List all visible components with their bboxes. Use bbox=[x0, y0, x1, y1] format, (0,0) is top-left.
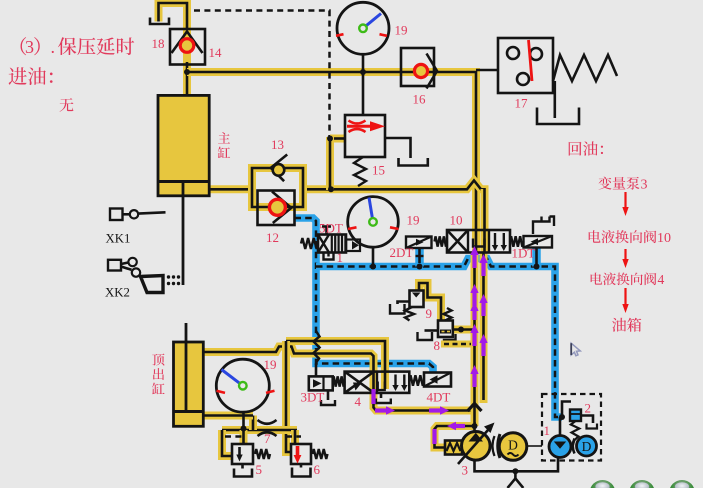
label 进油： bbox=[9, 67, 27, 85]
node junction pilot/feed bbox=[327, 136, 333, 142]
flow arrows purple riser left bbox=[472, 252, 476, 268]
directional valve 4 (4DT) bbox=[345, 372, 410, 393]
pressure gauge 19 middle bbox=[348, 197, 399, 248]
wire blue return main y266 to pump unit 1 bbox=[316, 259, 562, 418]
relief valve 6 bbox=[291, 444, 311, 464]
node junction tank line bbox=[512, 468, 518, 474]
wire gauge19-top stem bbox=[362, 50, 365, 116]
wire left drop x286 to valve6 bbox=[286, 341, 291, 452]
svg-text:19: 19 bbox=[395, 23, 408, 38]
svg-text:5DT: 5DT bbox=[319, 221, 343, 236]
dotted link XK2 to rod bbox=[167, 275, 170, 278]
svg-text:4: 4 bbox=[658, 272, 665, 287]
red arrow 1 bbox=[624, 192, 626, 209]
svg-text:8: 8 bbox=[434, 338, 441, 353]
wire valve5 top feed bbox=[240, 430, 248, 445]
label 无 bbox=[60, 98, 74, 112]
relief valve 5 bbox=[232, 444, 253, 464]
wire tank18 to valve14 bbox=[159, 3, 188, 31]
node junction bottom bbox=[241, 426, 247, 432]
electric motor D~ bbox=[499, 433, 527, 461]
wire upper pipe y341 to valve4 right port bbox=[286, 341, 385, 389]
svg-text:4DT: 4DT bbox=[427, 390, 451, 405]
reducing valve 8 bbox=[438, 321, 453, 338]
check valve 14 bbox=[170, 29, 205, 65]
pilot valve 15 bbox=[345, 115, 385, 157]
limit switch XK1 bbox=[110, 209, 123, 221]
wire vertical pair valve10 to pump3 junction bbox=[471, 253, 479, 427]
svg-text:1DT: 1DT bbox=[512, 246, 536, 261]
arrowhead up at pump3 riser bbox=[468, 404, 482, 412]
svg-text:7: 7 bbox=[264, 431, 271, 446]
svg-text:3DT: 3DT bbox=[301, 390, 325, 405]
spring right of valve10 bbox=[510, 236, 524, 246]
label 油箱 bbox=[612, 318, 626, 332]
wire valve13/12 loop bbox=[252, 168, 303, 207]
svg-text:10: 10 bbox=[450, 213, 463, 228]
dashed enclosure pump unit bbox=[542, 394, 601, 461]
svg-text:19: 19 bbox=[264, 357, 277, 372]
spring right of valve4 bbox=[409, 375, 424, 385]
pressure gauge 19 ejector bbox=[216, 359, 269, 412]
wire top pressure line P3/V1 bbox=[187, 72, 476, 253]
1DT drain hook bbox=[533, 217, 550, 235]
svg-text:3: 3 bbox=[25, 37, 34, 57]
solenoid valve 3DT bbox=[309, 376, 333, 390]
svg-text:.: . bbox=[51, 37, 56, 57]
tank 18 bbox=[150, 18, 169, 25]
valve1 closed top port bbox=[325, 227, 328, 235]
svg-text:5: 5 bbox=[256, 462, 263, 477]
relay 17 drain and tank bbox=[553, 81, 556, 118]
svg-text:14: 14 bbox=[209, 45, 223, 60]
svg-text:13: 13 bbox=[271, 137, 284, 152]
pump3 bottom to tank bbox=[475, 458, 559, 471]
wire cyl bottom drop bbox=[249, 416, 257, 431]
directional valve 10 (3-pos 4-way) bbox=[447, 230, 510, 253]
valve15 drain to tank bbox=[385, 138, 411, 158]
wire valve6 top feed bbox=[291, 430, 299, 445]
svg-text:XK2: XK2 bbox=[105, 286, 130, 300]
wire gauge19-mid stem bbox=[372, 247, 375, 267]
svg-text:XK1: XK1 bbox=[106, 232, 131, 246]
wire main cylinder to loop 12 bbox=[209, 185, 253, 193]
svg-text:16: 16 bbox=[413, 92, 427, 107]
pump 1 bbox=[549, 436, 571, 458]
svg-text:2: 2 bbox=[585, 401, 592, 416]
svg-text:15: 15 bbox=[372, 163, 385, 178]
coupling pump3/motor bbox=[493, 436, 495, 456]
ejector cylinder 顶出缸 bbox=[174, 342, 204, 426]
svg-text:4: 4 bbox=[355, 394, 362, 409]
label 顶出缸 vertical bbox=[152, 354, 164, 366]
variable pump 3 bbox=[462, 432, 491, 461]
pilot operated check valve 12 bbox=[258, 191, 295, 226]
wire valve4 outlet down/right/up to valve10 (pressure, purple) bbox=[374, 392, 476, 411]
flow arrows on y410 horizontal bbox=[375, 408, 389, 412]
wire stub into valve 3DT bbox=[315, 364, 318, 378]
label 变量泵3 bbox=[598, 177, 611, 190]
wire valve8 outlet bbox=[453, 326, 473, 334]
svg-text:3: 3 bbox=[462, 463, 469, 478]
svg-text:12: 12 bbox=[266, 230, 279, 245]
heading (3). 保压延时 bbox=[21, 37, 27, 55]
wire pump3 outlet elbow bbox=[435, 426, 475, 448]
coupling pump1/motor bbox=[573, 439, 575, 454]
wire blue crossing wiggle over yellow pipes bbox=[314, 331, 320, 363]
valve4 tank stub bbox=[380, 393, 383, 398]
check valve 13 bbox=[271, 155, 287, 182]
wire blue return valve12 down to y363 and right to 4DT bbox=[295, 218, 434, 374]
wire pilot dashed valve14 to valve15 bbox=[194, 11, 330, 137]
svg-text:D: D bbox=[582, 439, 592, 454]
red arrow 3 bbox=[624, 288, 626, 306]
label 主缸 vertical bbox=[218, 132, 230, 143]
spring of valve 15 bbox=[354, 157, 366, 186]
wire bottom line y430 bbox=[222, 426, 297, 434]
wire gauge19-bot stem bbox=[242, 412, 245, 430]
wire valve15 feed stub bbox=[330, 135, 345, 143]
wire ejector cylinder top pipe to valve4 left port (hops at x286) bbox=[203, 347, 374, 393]
svg-text:6: 6 bbox=[314, 462, 321, 477]
label 回油： bbox=[569, 142, 582, 156]
solenoid 1DT bbox=[524, 236, 553, 248]
relief valve 2 bbox=[570, 410, 581, 422]
flow arrows purple riser right bbox=[481, 260, 485, 276]
wire valve5 side loop bbox=[222, 430, 232, 456]
svg-text:9: 9 bbox=[426, 306, 433, 321]
flow arrow on pump3 elbow bbox=[453, 424, 465, 428]
mouse cursor bbox=[571, 343, 580, 356]
spring left of valve10 bbox=[435, 236, 448, 246]
svg-text:18: 18 bbox=[152, 36, 165, 51]
svg-text:1: 1 bbox=[337, 250, 344, 265]
wire valve15 drop to main line bbox=[326, 137, 334, 190]
wire branch to pressure relay 17 bbox=[476, 69, 498, 72]
valve1 bottom tank bbox=[324, 254, 334, 260]
limit switch XK2 bbox=[108, 260, 121, 271]
wire 1DT drain to tank bbox=[532, 248, 541, 267]
pressure relay 17 bbox=[498, 38, 553, 93]
reducing valve 9 bbox=[410, 291, 424, 308]
label 电液换向阀4 bbox=[591, 273, 603, 285]
svg-text:2DT: 2DT bbox=[390, 245, 414, 260]
wire yellow through valve14 bbox=[183, 28, 191, 65]
flow arrows purple valve8 area bbox=[472, 308, 476, 320]
svg-text:D: D bbox=[508, 438, 518, 453]
wire valve9 to valve8 link bbox=[419, 283, 441, 322]
svg-text:1: 1 bbox=[544, 423, 551, 438]
strainer box at pump3 inlet bbox=[445, 441, 462, 455]
node junction on main line bbox=[328, 186, 334, 192]
spring of relay 17 bbox=[553, 55, 617, 81]
node junction pump1 inlet bbox=[559, 414, 565, 420]
svg-text:3: 3 bbox=[641, 178, 648, 193]
wire valve8 lower drain loop bbox=[444, 334, 456, 344]
svg-text:10: 10 bbox=[657, 231, 671, 246]
solenoid 2DT bbox=[406, 237, 432, 249]
svg-text:17: 17 bbox=[515, 96, 529, 111]
pressure gauge 19 top bbox=[337, 2, 389, 54]
wire pump3 top stub bbox=[473, 422, 476, 432]
wire vertical pair above valve10 bbox=[481, 189, 489, 231]
main cylinder 主缸 bbox=[158, 95, 209, 195]
spring of valve 2 bbox=[571, 421, 580, 446]
wire ejector bottom pipe bbox=[203, 412, 253, 420]
svg-text:19: 19 bbox=[407, 213, 420, 228]
red arrow 2 bbox=[624, 249, 626, 261]
node junction valve8 out bbox=[458, 327, 464, 333]
node junction valve14/top line bbox=[184, 69, 190, 75]
motor D of pump1 bbox=[577, 436, 597, 456]
throttle valve 7 bbox=[258, 420, 277, 424]
check valve 16 bbox=[401, 48, 434, 86]
node junction pump3 bbox=[472, 423, 478, 429]
solenoid 4DT bbox=[424, 373, 451, 387]
wire valve14 to main cylinder bbox=[183, 62, 191, 96]
wire main line y189 to valve10 (hops over V1) bbox=[302, 181, 485, 253]
label 电液换向阀10 bbox=[589, 230, 601, 242]
solenoid valve 1 (5DT) bbox=[301, 238, 318, 249]
wire 2DT drain to tank bbox=[415, 248, 424, 267]
